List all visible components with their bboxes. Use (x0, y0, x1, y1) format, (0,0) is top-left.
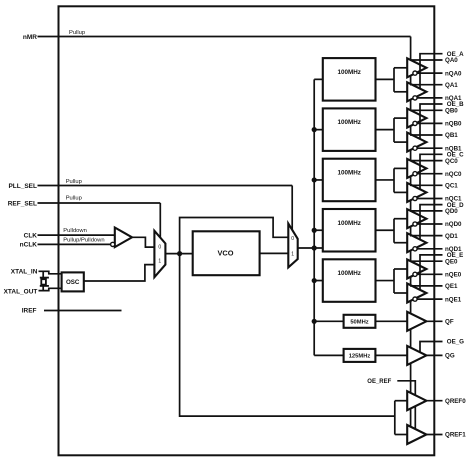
wire QREF input bracket (394, 401, 396, 435)
wire bracket stub C0 (394, 167, 407, 169)
svg-text:QD1: QD1 (445, 233, 458, 240)
inverting bubble nQD0 (413, 222, 417, 226)
wire nQB0 (417, 122, 442, 124)
wire OE_G enable (420, 342, 443, 353)
wire crystal to XTAL_OUT (42, 286, 44, 291)
wire bank E input bracket (393, 269, 395, 293)
svg-text:OE_G: OE_G (447, 339, 464, 346)
output driver QC0 (407, 159, 426, 178)
svg-text:VCO: VCO (217, 249, 233, 258)
wire OE_D enable (420, 205, 443, 241)
wire QC1 (410, 184, 443, 186)
wire PLL_SEL (38, 185, 293, 187)
wire XTAL_IN (39, 271, 63, 274)
wire bank A input bracket (393, 68, 395, 92)
wire bus to divider B (314, 129, 323, 131)
svg-text:CLK: CLK (24, 232, 38, 239)
output driver QD1 (407, 233, 426, 252)
crystal X1 top plate (40, 277, 49, 279)
wire nQE1 (417, 298, 442, 300)
output driver QREF1 (407, 425, 426, 444)
output driver QD0 (407, 209, 426, 228)
svg-text:125MHz: 125MHz (349, 354, 371, 360)
wire divider C output (376, 179, 395, 181)
wire QREF0 (426, 400, 442, 402)
wire bus to 125MHz divider (314, 354, 343, 356)
output driver QA1 (407, 82, 426, 101)
wire bus to 50MHz divider (314, 320, 343, 322)
wire nMR (38, 36, 411, 38)
wire reference feedback to QREF drivers (180, 254, 395, 417)
node bus junction 50MHz (312, 319, 317, 324)
wire bracket stub A1 (394, 91, 407, 93)
svg-text:nQE1: nQE1 (445, 296, 462, 303)
wire nQC1 (417, 198, 442, 200)
svg-text:IREF: IREF (22, 308, 37, 315)
VCO block (193, 231, 260, 275)
wire divider D output (376, 229, 395, 231)
svg-text:QE0: QE0 (445, 258, 458, 265)
inverting bubble nQA0 (413, 71, 417, 75)
svg-text:100MHz: 100MHz (337, 69, 360, 76)
node bus junction divider B (312, 127, 317, 132)
node bus junction divider D (312, 228, 317, 233)
output driver QB1 (407, 133, 426, 152)
svg-text:100MHz: 100MHz (337, 220, 360, 227)
wire nQA0 (417, 72, 442, 74)
wire OE_E enable (420, 255, 443, 291)
svg-text:Pulldown: Pulldown (63, 228, 87, 234)
wire QB0 (410, 109, 443, 111)
svg-text:REF_SEL: REF_SEL (8, 200, 37, 207)
wire M2 output to clock bus (298, 247, 323, 249)
node bus junction divider E (312, 278, 317, 283)
wire divider B output (376, 129, 395, 131)
svg-text:PLL_SEL: PLL_SEL (8, 183, 37, 190)
wire bank B input bracket (393, 118, 395, 142)
wire REF_SEL (38, 202, 161, 204)
inverting bubble nQD1 (413, 247, 417, 251)
wire nQB1 (417, 147, 442, 149)
wire PLL bypass (180, 218, 289, 254)
svg-text:QREF1: QREF1 (445, 432, 466, 439)
wire QF (426, 320, 442, 322)
output driver QREF0 (407, 391, 426, 410)
svg-text:Pullup: Pullup (66, 179, 82, 185)
wire nQD0 (417, 223, 442, 225)
wire QE0 (410, 260, 443, 262)
svg-text:Pullup: Pullup (69, 30, 85, 36)
inverting bubble nQA1 (413, 96, 417, 100)
wire nQA1 (417, 97, 442, 99)
wire nQD1 (417, 248, 442, 250)
node bus junction divider C (312, 177, 317, 182)
svg-text:XTAL_IN: XTAL_IN (11, 269, 38, 276)
svg-text:Pullup/Pulldown: Pullup/Pulldown (63, 237, 104, 243)
wire QE1 (410, 285, 443, 287)
output driver QC1 (407, 183, 426, 202)
wire bank C input bracket (393, 168, 395, 192)
wire bus to divider D (314, 229, 323, 231)
svg-text:QG: QG (445, 353, 455, 360)
wire bracket stub E0 (394, 268, 407, 270)
svg-text:Pullup: Pullup (66, 196, 82, 202)
wire QG (426, 354, 442, 356)
wire divider E output (376, 280, 395, 282)
divider 50MHz (344, 315, 376, 328)
net nMR vertical to output drivers (410, 37, 412, 430)
inverting bubble nQE1 (413, 297, 417, 301)
svg-text:50MHz: 50MHz (350, 320, 368, 326)
wire OE_C enable (420, 154, 443, 190)
divider 100MHz bank E (323, 259, 376, 302)
wire bus to divider A (314, 78, 323, 80)
output driver QB0 (407, 109, 426, 128)
wire QD0 (410, 210, 443, 212)
wire QREF1 (426, 434, 442, 436)
svg-text:QREF0: QREF0 (445, 398, 466, 405)
divider 100MHz bank A (323, 58, 376, 101)
input buffer U1 (115, 228, 132, 248)
wire bracket stub QREF0 (395, 400, 407, 402)
svg-text:QC1: QC1 (445, 183, 458, 190)
wire OE_A enable (420, 54, 443, 89)
wire bracket stub B0 (394, 117, 407, 119)
svg-text:nQD0: nQD0 (445, 221, 462, 228)
divider 125MHz (344, 349, 376, 362)
inverting bubble nQB0 (413, 121, 417, 125)
wire bracket stub D0 (394, 218, 407, 220)
svg-text:nQB0: nQB0 (445, 121, 462, 128)
svg-text:QB0: QB0 (445, 108, 458, 115)
wire QA0 (410, 59, 443, 61)
svg-text:nCLK: nCLK (20, 242, 38, 249)
node N1 reference junction (177, 251, 182, 256)
wire CLK (38, 234, 115, 236)
output driver QA0 (407, 58, 426, 77)
svg-text:QB1: QB1 (445, 132, 458, 139)
svg-text:QF: QF (445, 319, 454, 326)
IC boundary box (59, 6, 435, 455)
wire clock bus vertical (313, 79, 315, 355)
divider 100MHz bank C (323, 159, 376, 202)
wire REF_SEL select to mux M1 (159, 203, 161, 238)
wire divider A output (376, 78, 395, 80)
svg-text:QD0: QD0 (445, 208, 458, 215)
inverting bubble nQB1 (413, 146, 417, 150)
svg-text:0: 0 (291, 236, 294, 242)
svg-text:nQE0: nQE0 (445, 272, 462, 279)
oscillator OSC (62, 272, 84, 291)
inverting bubble on nCLK input of U1 (111, 242, 115, 246)
wire bracket stub A0 (394, 67, 407, 69)
svg-text:100MHz: 100MHz (337, 270, 360, 277)
wire nQE0 (417, 273, 442, 275)
wire QA1 (410, 84, 443, 86)
wire 125MHz to QG driver (375, 354, 407, 356)
divider 100MHz bank D (323, 209, 376, 252)
wire nCLK (38, 243, 111, 245)
wire PLL_SEL select to mux M2 (291, 186, 293, 231)
wire VCO output to mux M2 (260, 252, 289, 254)
svg-text:100MHz: 100MHz (337, 170, 360, 177)
output driver QG (407, 346, 426, 365)
inverting bubble nQE0 (413, 272, 417, 276)
output driver QF (407, 312, 426, 331)
wire XTAL_OUT (39, 288, 63, 290)
wire OE_B enable (420, 104, 443, 140)
divider 100MHz bank B (323, 108, 376, 150)
wire U1 output to mux M1 input 0 (132, 237, 154, 247)
wire QB1 (410, 134, 443, 136)
wire bracket stub B1 (394, 141, 407, 143)
svg-text:QE1: QE1 (445, 283, 458, 290)
svg-text:nMR: nMR (23, 34, 37, 41)
crystal X1 body (41, 279, 46, 284)
inverting bubble nQC0 (413, 172, 417, 176)
wire IREF (44, 310, 122, 312)
mux M1 (154, 231, 165, 277)
crystal X1 bottom plate (40, 285, 49, 287)
inverting bubble nQC1 (413, 196, 417, 200)
svg-text:1: 1 (291, 252, 294, 258)
svg-text:nQC0: nQC0 (445, 171, 462, 178)
wire OE_REF enable (397, 381, 415, 430)
wire bus to divider E (314, 280, 323, 282)
svg-text:QA0: QA0 (445, 57, 458, 64)
svg-text:XTAL_OUT: XTAL_OUT (4, 289, 38, 296)
wire QC0 (410, 160, 443, 162)
output driver QE1 (407, 284, 426, 303)
wire bank D input bracket (393, 219, 395, 243)
wire bracket stub D1 (394, 242, 407, 244)
wire bracket stub C1 (394, 191, 407, 193)
svg-text:0: 0 (158, 244, 161, 250)
wire bracket stub E1 (394, 292, 407, 294)
wire QD1 (410, 235, 443, 237)
wire bus to divider C (314, 179, 323, 181)
wire M1 output to VCO (165, 253, 192, 255)
wire 50MHz to QF driver (375, 320, 407, 322)
svg-text:OE_REF: OE_REF (367, 379, 391, 385)
wire XTAL_IN tap to crystal (42, 271, 44, 277)
svg-text:100MHz: 100MHz (337, 119, 360, 126)
wire OSC output to mux M1 input 1 (84, 265, 155, 281)
svg-text:nQA0: nQA0 (445, 70, 462, 77)
wire bracket stub QREF1 (395, 434, 407, 436)
svg-text:OSC: OSC (66, 279, 80, 286)
svg-text:QC0: QC0 (445, 158, 458, 165)
node bus junction at M2 output (312, 245, 317, 250)
wire nQC0 (417, 173, 442, 175)
output driver QE0 (407, 260, 426, 279)
svg-text:1: 1 (158, 258, 161, 264)
mux M2 (288, 224, 297, 268)
svg-text:QA1: QA1 (445, 82, 458, 89)
